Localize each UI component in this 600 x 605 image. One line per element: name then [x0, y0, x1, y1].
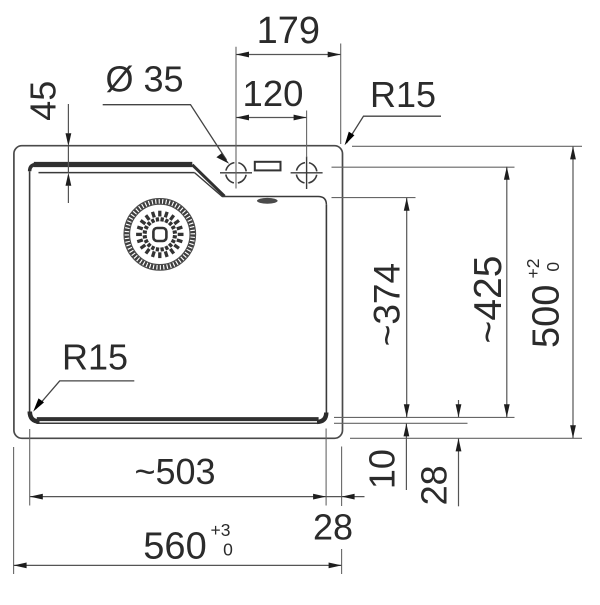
arrow 28v down — [456, 404, 462, 417]
svg-text:0: 0 — [543, 262, 563, 272]
svg-text:0: 0 — [223, 540, 233, 560]
dim line ~503 and 28 — [30, 496, 365, 498]
svg-text:28: 28 — [313, 507, 353, 548]
arrow 500 up — [570, 146, 576, 159]
arrow 10 up — [404, 423, 410, 436]
bowl left edge — [29, 171, 31, 417]
svg-text:120: 120 — [243, 73, 304, 114]
dim tail 10 — [405, 423, 407, 490]
ext outer left down — [13, 447, 15, 574]
dim line ~374 — [406, 198, 408, 417]
strainer outer tooth ring — [136, 211, 183, 258]
dimension lines — [14, 55, 573, 566]
svg-text:~503: ~503 — [134, 451, 215, 492]
svg-text:10: 10 — [362, 449, 403, 489]
bowl ledge diagonal thin — [195, 173, 223, 197]
arrow 45 down — [66, 133, 72, 146]
ext tap hole 1 vertical — [235, 47, 237, 189]
ext outer right top — [340, 44, 342, 145]
ext bowl top right — [332, 166, 515, 168]
bowl bottom outer line — [37, 422, 318, 424]
arrow 28v up — [456, 438, 462, 451]
bowl bottom-right corner — [317, 413, 326, 422]
arrow 120 left — [236, 115, 249, 121]
ext bowl left down — [29, 429, 31, 506]
bowl top inner line — [39, 172, 195, 174]
arrow 560 left — [14, 563, 27, 569]
leader R15 bottom-left arrowhead — [33, 398, 44, 411]
dim line 560 — [14, 564, 342, 566]
svg-text:+3: +3 — [211, 520, 231, 540]
dim line 120 — [236, 117, 307, 119]
arrow 500 down — [570, 425, 576, 438]
leader Ø35 — [103, 105, 227, 160]
arrow 28h right — [342, 494, 355, 500]
arrow 120 right — [294, 115, 307, 121]
ext ledge right — [332, 197, 416, 199]
svg-text:R15: R15 — [62, 337, 128, 378]
leader R15 bottom-left — [36, 381, 135, 409]
svg-text:~425: ~425 — [467, 256, 510, 344]
outer sink edge — [14, 146, 343, 439]
ext bowl bottom line2 right — [334, 422, 468, 424]
arrow ~425 up — [504, 167, 510, 180]
bowl bottom rim band — [37, 417, 319, 421]
bowl ledge diagonal thick — [192, 165, 224, 196]
dim line ~425 — [506, 167, 508, 418]
dim line 179 — [236, 54, 341, 56]
ext bowl right down — [325, 429, 327, 506]
strainer outer knurled ring — [127, 201, 193, 267]
ext outer right down lower — [341, 549, 343, 574]
leader R15 top-right — [347, 116, 442, 143]
svg-text:179: 179 — [257, 10, 320, 52]
bowl right edge — [325, 205, 327, 414]
arrow 179 left — [236, 52, 249, 58]
svg-text:45: 45 — [23, 81, 64, 121]
arrow ~374 down — [404, 404, 410, 417]
faucet slot rectangle — [255, 162, 281, 171]
ext outer bottom right — [350, 437, 582, 439]
arrow ~503 right / 28h left-side — [313, 494, 326, 500]
ext outer top right — [352, 145, 582, 147]
svg-text:+2: +2 — [523, 259, 543, 279]
arrow 560 right — [329, 563, 342, 569]
arrow 179 right — [328, 52, 341, 58]
svg-text:R15: R15 — [370, 74, 436, 115]
arrow ~425 down — [504, 404, 510, 417]
bowl ledge line — [222, 197, 326, 205]
svg-text:~374: ~374 — [367, 263, 408, 346]
tap hole 1 — [220, 163, 252, 184]
svg-text:28: 28 — [414, 465, 455, 505]
svg-text:Ø 35: Ø 35 — [105, 59, 183, 100]
leader R15 top-right arrowhead — [345, 132, 355, 146]
bowl outline — [30, 165, 327, 424]
dim 45 line — [67, 104, 69, 203]
arrow ~374 up — [404, 198, 410, 211]
svg-text:560: 560 — [143, 526, 206, 568]
ext bowl bottom line1 right — [334, 416, 515, 418]
arrow ~503 left — [30, 494, 43, 500]
tap hole 2 — [291, 157, 323, 189]
strainer inner tooth ring — [143, 217, 177, 251]
bowl bottom-left corner — [30, 412, 40, 422]
bowl top rim band — [34, 162, 193, 167]
arrow 45 up — [66, 173, 72, 186]
dim line 500 — [572, 146, 574, 438]
leader Ø35 arrowhead — [216, 153, 229, 164]
dim tail 28 vertical — [458, 400, 460, 417]
strainer — [124, 199, 196, 271]
overflow slot — [257, 198, 278, 204]
ext tap hole 2 vertical — [306, 111, 308, 158]
strainer center square — [153, 228, 166, 241]
ext outer right down — [341, 447, 343, 507]
bowl top-left corner — [30, 165, 37, 172]
svg-text:500: 500 — [526, 285, 568, 348]
